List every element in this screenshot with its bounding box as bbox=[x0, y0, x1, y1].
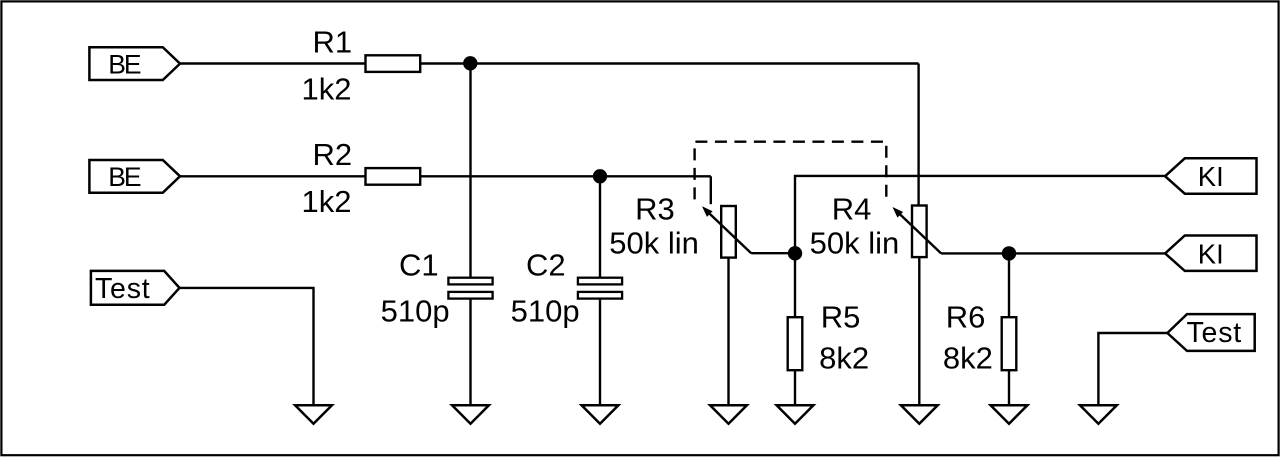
wire Test-right to ground bbox=[1098, 333, 1167, 405]
potentiometer R4 body bbox=[912, 206, 927, 258]
svg-text:50k lin: 50k lin bbox=[609, 226, 699, 261]
svg-text:BE: BE bbox=[108, 162, 141, 192]
wire R2 to corner bbox=[420, 175, 711, 177]
svg-text:R1: R1 bbox=[313, 24, 353, 59]
svg-text:R4: R4 bbox=[832, 192, 872, 227]
ground (Test left) bbox=[295, 405, 332, 423]
flag BE (net BE, row 1) bbox=[89, 47, 180, 80]
wire junction down to R6 bbox=[1008, 253, 1010, 318]
svg-text:Test: Test bbox=[95, 273, 150, 305]
potentiometer R3 wiper arrow bbox=[706, 210, 751, 253]
capacitor C2 plate 1 bbox=[578, 278, 622, 285]
wire down to R4 top bbox=[917, 64, 919, 207]
ground (C2) bbox=[582, 405, 619, 423]
junction node at R5 top bbox=[788, 246, 802, 260]
wire Test-left to ground bbox=[180, 288, 314, 405]
wire R3 wiper to junction bbox=[751, 252, 795, 254]
svg-text:C1: C1 bbox=[399, 248, 439, 283]
wire R6 to ground bbox=[1008, 371, 1010, 406]
resistor R5 bbox=[788, 317, 803, 370]
junction node at C1 top bbox=[463, 56, 477, 70]
capacitor C2 plate 2 bbox=[578, 292, 622, 299]
wire down to R3 wiper arrow bbox=[710, 176, 712, 204]
wire C1 to ground bbox=[469, 298, 471, 405]
svg-text:8k2: 8k2 bbox=[943, 341, 993, 376]
junction node at C2 top bbox=[593, 169, 607, 183]
wire BE1 to R1 bbox=[180, 62, 367, 64]
ground (C1) bbox=[452, 405, 489, 423]
wire C2 to ground bbox=[599, 298, 601, 405]
svg-text:KI: KI bbox=[1198, 161, 1224, 192]
svg-text:R5: R5 bbox=[821, 300, 861, 335]
wire corner to KI row 1 bbox=[795, 176, 1165, 318]
junction node at R6 top bbox=[1002, 246, 1016, 260]
svg-text:510p: 510p bbox=[511, 294, 580, 329]
svg-text:510p: 510p bbox=[381, 294, 450, 329]
svg-text:BE: BE bbox=[108, 49, 141, 79]
svg-text:R3: R3 bbox=[635, 192, 675, 227]
svg-text:8k2: 8k2 bbox=[819, 341, 869, 376]
capacitor C1 plate 1 bbox=[448, 278, 492, 285]
resistor R6 bbox=[1002, 317, 1017, 370]
svg-text:Test: Test bbox=[1187, 317, 1242, 349]
resistor R1 bbox=[366, 55, 421, 72]
resistor R2 bbox=[366, 168, 421, 185]
ground (R6) bbox=[991, 405, 1028, 423]
svg-text:KI: KI bbox=[1198, 238, 1224, 269]
capacitor C1 plate 2 bbox=[448, 292, 492, 299]
potentiometer R4 wiper arrow bbox=[897, 211, 942, 253]
wire R5 to ground bbox=[794, 371, 796, 406]
flag BE (net BE, row 2) bbox=[89, 160, 180, 193]
svg-text:R6: R6 bbox=[946, 300, 986, 335]
wire junction to KI row 2 bbox=[1009, 252, 1166, 254]
wire R4 wiper to junction bbox=[941, 252, 1009, 254]
flag KI (row 2) bbox=[1165, 236, 1256, 271]
wire R3 bottom to ground bbox=[727, 258, 729, 406]
svg-text:R2: R2 bbox=[313, 137, 353, 172]
svg-text:50k lin: 50k lin bbox=[810, 226, 900, 261]
wire junction to C1 bbox=[469, 64, 471, 279]
flag KI (row 1) bbox=[1165, 158, 1256, 193]
ground (R5) bbox=[777, 405, 814, 423]
ground (R3) bbox=[710, 405, 747, 423]
ground (R4) bbox=[901, 405, 938, 423]
ground (Test right) bbox=[1080, 405, 1117, 423]
wire BE2 through R2 to corner above R3 bbox=[180, 175, 367, 177]
svg-text:C2: C2 bbox=[526, 248, 566, 283]
potentiometer R3 body bbox=[721, 206, 736, 258]
wire R1 to corner above R4 bbox=[420, 62, 919, 64]
wire R4 bottom to ground bbox=[918, 257, 920, 406]
svg-text:1k2: 1k2 bbox=[302, 71, 352, 106]
flag Test (right) bbox=[1167, 314, 1254, 351]
wire junction to C2 bbox=[599, 176, 601, 278]
svg-text:1k2: 1k2 bbox=[302, 184, 352, 219]
mechanical coupling dashed link R3-R4 bbox=[695, 142, 887, 200]
flag Test (left) bbox=[91, 271, 180, 305]
